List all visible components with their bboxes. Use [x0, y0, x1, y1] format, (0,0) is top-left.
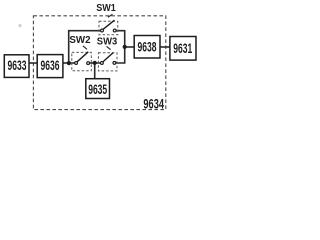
- wire 9633 to 9636: [29, 62, 38, 64]
- dashed enclosure 9634: [33, 16, 165, 110]
- switch SW2 dashed box: [72, 52, 92, 70]
- node B junction: [123, 45, 127, 49]
- switch SW2: [75, 46, 90, 65]
- svg-text:9631: 9631: [173, 41, 192, 56]
- wire node B to 9638: [125, 46, 135, 48]
- svg-text:9635: 9635: [88, 82, 107, 97]
- svg-text:9638: 9638: [138, 40, 157, 55]
- box 9635: [86, 79, 110, 99]
- svg-text:9634: 9634: [143, 96, 164, 111]
- node A junction: [67, 61, 71, 65]
- svg-text:SW2: SW2: [69, 34, 90, 46]
- box 9631: [170, 37, 196, 61]
- wire SW2 to node C: [89, 62, 101, 64]
- wire 9638 to 9631: [160, 46, 171, 48]
- svg-text:9633: 9633: [8, 58, 27, 73]
- scan artifact dot: [18, 24, 21, 27]
- switch SW1 dashed box: [99, 21, 118, 35]
- box 9638: [134, 36, 160, 59]
- svg-text:9636: 9636: [41, 58, 60, 73]
- switch SW3: [101, 46, 116, 64]
- switch SW1: [101, 14, 117, 32]
- wire SW1 right down to SW3: [115, 31, 125, 63]
- wire node A up to SW1: [69, 31, 102, 63]
- wire 9636 to node A: [63, 62, 76, 64]
- node C junction: [93, 61, 97, 65]
- wire node C down to 9635: [94, 63, 96, 79]
- box 9636: [37, 55, 63, 78]
- switch SW3 dashed box: [98, 53, 117, 71]
- svg-text:SW1: SW1: [96, 2, 116, 14]
- box 9633: [4, 55, 29, 78]
- svg-text:SW3: SW3: [97, 36, 118, 48]
